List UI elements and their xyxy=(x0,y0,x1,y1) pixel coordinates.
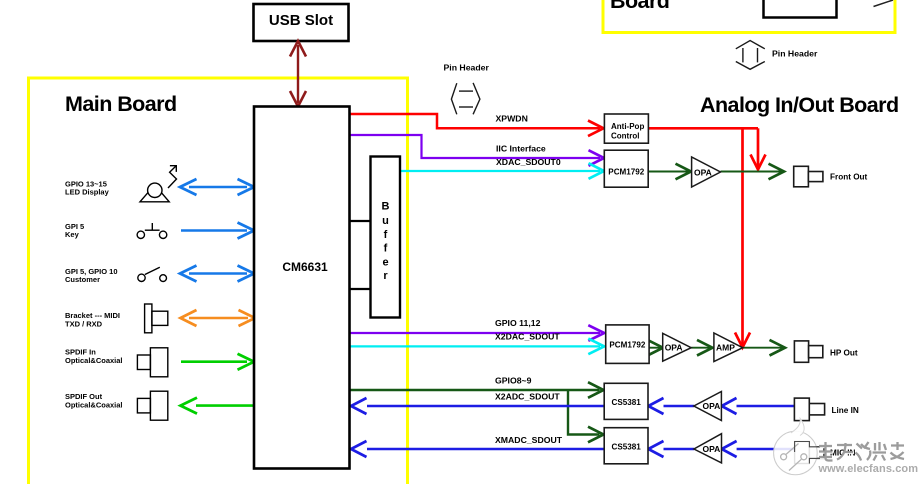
IC PCM1792 #1 xyxy=(604,150,648,187)
wire blue double arrow row3 xyxy=(180,266,254,282)
svg-text:B: B xyxy=(382,201,390,213)
svg-text:Optical&Coaxial: Optical&Coaxial xyxy=(65,356,123,365)
wire orange double arrow row4 xyxy=(181,310,256,326)
MIDI bracket icon xyxy=(145,304,168,333)
svg-text:r: r xyxy=(383,270,388,282)
wire buffer stub 2 xyxy=(349,288,371,290)
op-amp OPA3 xyxy=(694,392,722,421)
net front out analog (dark green) xyxy=(648,164,784,180)
svg-text:USB Slot: USB Slot xyxy=(269,12,333,29)
svg-text:Key: Key xyxy=(65,230,80,239)
net XPWDN (red) xyxy=(350,114,766,348)
svg-text:f: f xyxy=(384,229,388,241)
connector block in top board (cut off) xyxy=(764,0,837,18)
wire blue double arrow row1 xyxy=(180,179,254,195)
svg-text:XDAC_SDOUT0: XDAC_SDOUT0 xyxy=(496,157,561,167)
LED display icon (person with indicator) xyxy=(140,166,177,202)
svg-text:IIC Interface: IIC Interface xyxy=(496,144,546,154)
svg-text:HP Out: HP Out xyxy=(830,349,858,358)
net line in (blue) xyxy=(648,398,794,414)
IC U1 CM6631 xyxy=(254,107,350,469)
svg-text:Pin Header: Pin Header xyxy=(772,49,818,59)
svg-text:GPIO 11,12: GPIO 11,12 xyxy=(495,318,541,328)
IC CS5381 #2 xyxy=(604,428,648,464)
op-amp OPA4 xyxy=(694,434,722,463)
pin header J2 (vertical symbol, top right) xyxy=(736,41,765,70)
svg-text:AMP: AMP xyxy=(716,343,735,353)
svg-text:f: f xyxy=(384,243,388,255)
net hp out analog (dark green) xyxy=(648,340,786,356)
USB slot box xyxy=(254,4,349,41)
mic icon edges re-drawn over watermark xyxy=(795,442,824,464)
svg-text:CS5381: CS5381 xyxy=(611,442,641,451)
svg-text:TXD / RXD: TXD / RXD xyxy=(65,320,103,329)
wire blue arrow row2 xyxy=(181,223,254,239)
svg-text:OPA: OPA xyxy=(703,401,721,411)
wire buffer stub 1 xyxy=(349,220,371,222)
svg-text:www.elecfans.com: www.elecfans.com xyxy=(818,463,919,475)
svg-text:e: e xyxy=(382,257,388,269)
svg-text:XMADC_SDOUT: XMADC_SDOUT xyxy=(495,435,563,445)
amplifier AMP xyxy=(714,333,743,362)
net XMADC_SDOUT (blue) xyxy=(351,441,604,457)
svg-text:OPA: OPA xyxy=(665,343,683,353)
board outline: Main Board yellow box xyxy=(29,78,408,484)
watermark chinese text 电子发烧友 xyxy=(820,443,905,462)
wire: cut arrow stub top right xyxy=(874,0,894,7)
net GPIO8~9 (dark green) with branch xyxy=(350,382,604,442)
svg-text:u: u xyxy=(382,215,389,227)
svg-text:Line IN: Line IN xyxy=(832,406,859,415)
svg-text:Customer: Customer xyxy=(65,275,100,284)
svg-text:Pin Header: Pin Header xyxy=(444,63,490,73)
IC PCM1792 #2 xyxy=(606,325,649,364)
svg-text:Main Board: Main Board xyxy=(65,92,177,116)
net mic in (blue) xyxy=(648,441,794,457)
svg-text:Bracket --- MIDI: Bracket --- MIDI xyxy=(65,311,120,320)
customer switch icon xyxy=(138,267,167,281)
svg-text:XPWDN: XPWDN xyxy=(496,114,528,124)
svg-text:CS5381: CS5381 xyxy=(611,398,641,407)
svg-text:X2DAC_SDOUT: X2DAC_SDOUT xyxy=(495,332,560,342)
connector front out xyxy=(794,166,823,187)
svg-text:SPDIF Out: SPDIF Out xyxy=(65,392,103,401)
IC CS5381 #1 xyxy=(604,383,648,419)
wire green arrow row5 xyxy=(181,354,254,370)
net IIC (purple) xyxy=(350,135,605,166)
buffer block xyxy=(371,157,401,318)
wire maroon usb double arrow xyxy=(290,41,306,107)
svg-text:Board: Board xyxy=(610,0,669,13)
net XDAC_SDOUT0 (cyan) xyxy=(400,163,604,179)
net X2ADC_SDOUT (blue) xyxy=(351,398,604,414)
svg-text:PCM1792: PCM1792 xyxy=(609,340,645,349)
SPDIF In connector icon xyxy=(137,348,167,377)
svg-text:Analog In/Out Board: Analog In/Out Board xyxy=(700,93,899,117)
svg-text:SPDIF In: SPDIF In xyxy=(65,347,96,356)
wire green arrow row6 xyxy=(181,398,255,414)
net X2DAC_SDOUT (cyan) xyxy=(350,339,605,355)
net GPIO 11,12 (purple) xyxy=(350,325,605,341)
anti-pop control block xyxy=(604,114,648,143)
svg-text:PCM1792: PCM1792 xyxy=(608,167,644,176)
svg-text:OPA: OPA xyxy=(694,168,712,178)
key button icon xyxy=(137,223,167,239)
watermark logo xyxy=(774,419,824,475)
svg-text:LED Display: LED Display xyxy=(65,187,110,196)
svg-text:CM6631: CM6631 xyxy=(282,260,328,274)
svg-text:GPIO8~9: GPIO8~9 xyxy=(495,376,532,386)
svg-text:Anti-Pop: Anti-Pop xyxy=(611,122,644,131)
svg-text:Control: Control xyxy=(611,132,639,141)
connector line in xyxy=(794,398,824,421)
op-amp OPA1 xyxy=(692,157,721,187)
SPDIF Out connector icon xyxy=(137,391,167,420)
svg-text:OPA: OPA xyxy=(703,444,721,454)
pin header J1 (horizontal symbol, middle) xyxy=(451,83,480,114)
svg-text:X2ADC_SDOUT: X2ADC_SDOUT xyxy=(495,392,560,402)
board outline: top-right partial yellow board xyxy=(603,0,895,33)
op-amp OPA2 xyxy=(663,333,692,361)
connector mic in xyxy=(795,442,824,464)
connector hp out xyxy=(794,341,822,362)
svg-text:Front Out: Front Out xyxy=(830,172,868,181)
svg-text:Optical&Coaxial: Optical&Coaxial xyxy=(65,401,123,410)
